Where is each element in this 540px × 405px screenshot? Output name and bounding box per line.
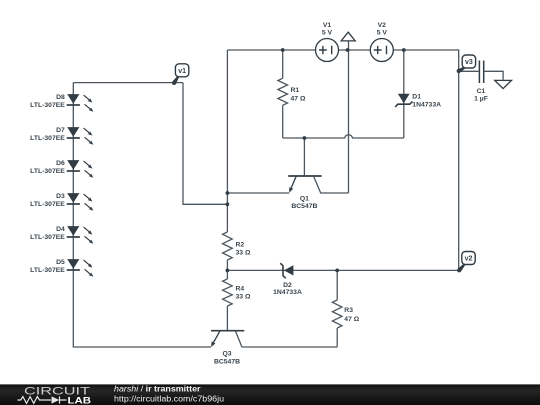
svg-text:D1: D1 bbox=[412, 93, 421, 100]
svg-text:R2: R2 bbox=[236, 241, 245, 248]
resistor R3 bbox=[332, 300, 342, 328]
svg-text:1N4733A: 1N4733A bbox=[273, 289, 302, 296]
wire bbox=[226, 260, 228, 279]
svg-text:D7: D7 bbox=[56, 127, 65, 134]
wire bbox=[227, 192, 289, 194]
svg-text:v1: v1 bbox=[178, 68, 186, 75]
svg-text:D3: D3 bbox=[56, 193, 65, 200]
svg-text:D4: D4 bbox=[56, 226, 65, 233]
wire bbox=[242, 346, 337, 348]
resistor R4 bbox=[223, 279, 233, 306]
svg-text:R4: R4 bbox=[236, 285, 245, 292]
svg-text:LTL-307EE: LTL-307EE bbox=[30, 168, 65, 175]
LED D8 bbox=[67, 94, 79, 104]
LED D3 bbox=[67, 193, 79, 203]
wire bbox=[227, 269, 458, 271]
wire bbox=[303, 138, 305, 175]
svg-text:LTL-307EE: LTL-307EE bbox=[30, 135, 65, 142]
svg-text:LTL-307EE: LTL-307EE bbox=[30, 234, 65, 241]
svg-text:BC547B: BC547B bbox=[214, 359, 240, 366]
svg-text:LAB: LAB bbox=[68, 394, 92, 405]
svg-text:D5: D5 bbox=[56, 259, 65, 266]
svg-text:D2: D2 bbox=[283, 282, 292, 289]
svg-text:33 Ω: 33 Ω bbox=[236, 250, 251, 257]
svg-text:V2: V2 bbox=[378, 22, 387, 29]
svg-text:Q3: Q3 bbox=[222, 351, 231, 358]
wire bbox=[227, 50, 458, 270]
svg-text:LTL-307EE: LTL-307EE bbox=[30, 267, 65, 274]
junction v3 node bbox=[457, 69, 461, 73]
svg-text:LTL-307EE: LTL-307EE bbox=[30, 102, 65, 109]
svg-text:D6: D6 bbox=[56, 160, 65, 167]
transistor Q1 bbox=[288, 175, 321, 177]
LED D5 bbox=[67, 259, 79, 269]
svg-text:1N4733A: 1N4733A bbox=[412, 102, 441, 109]
junction D1 top bbox=[402, 48, 406, 52]
capacitor C1 bbox=[459, 70, 479, 72]
wire bbox=[283, 135, 404, 138]
node v3 bbox=[458, 66, 466, 72]
junction Q1 base bbox=[303, 136, 307, 140]
LED D4 bbox=[67, 226, 79, 236]
wire bbox=[73, 83, 211, 347]
svg-text:33 Ω: 33 Ω bbox=[236, 293, 251, 300]
svg-text:Q1: Q1 bbox=[300, 196, 309, 203]
junction R1 top bbox=[281, 48, 285, 52]
LED D6 bbox=[67, 160, 79, 170]
wire bbox=[336, 270, 338, 300]
junction Q1 emitter bbox=[226, 191, 230, 195]
zener diode D1 bbox=[398, 94, 410, 104]
svg-text:harshi / ir transmitter: harshi / ir transmitter bbox=[114, 385, 201, 394]
voltage source V1 bbox=[316, 39, 339, 62]
junction v1 join bbox=[226, 202, 230, 206]
zener diode D2 bbox=[284, 265, 294, 275]
wire bbox=[183, 83, 227, 205]
wire bbox=[282, 50, 284, 78]
resistor R1 bbox=[278, 78, 288, 105]
svg-text:V1: V1 bbox=[323, 22, 332, 29]
voltage source V2 bbox=[370, 39, 393, 62]
node v2 bbox=[458, 263, 466, 272]
svg-text:v3: v3 bbox=[465, 59, 473, 66]
svg-text:1 µF: 1 µF bbox=[474, 96, 488, 103]
junction R2 R4 node bbox=[226, 269, 230, 273]
wire bbox=[282, 105, 284, 138]
wire bbox=[226, 306, 228, 331]
junction power node bbox=[346, 48, 350, 52]
wire bbox=[348, 41, 350, 193]
svg-text:R3: R3 bbox=[344, 307, 353, 314]
svg-text:47 Ω: 47 Ω bbox=[291, 96, 306, 103]
svg-text:5 V: 5 V bbox=[377, 29, 388, 36]
power flag bbox=[341, 32, 355, 41]
svg-text:D8: D8 bbox=[56, 94, 65, 101]
svg-text:LTL-307EE: LTL-307EE bbox=[30, 201, 65, 208]
wire bbox=[73, 82, 183, 84]
junction R3 top bbox=[335, 269, 339, 273]
svg-text:http://circuitlab.com/c7b96ju: http://circuitlab.com/c7b96ju bbox=[114, 394, 224, 403]
node v1 bbox=[172, 76, 179, 85]
svg-text:R1: R1 bbox=[291, 87, 300, 94]
svg-text:5 V: 5 V bbox=[322, 29, 333, 36]
svg-text:47 Ω: 47 Ω bbox=[344, 316, 359, 323]
wire bbox=[226, 50, 228, 232]
transistor Q3 bbox=[211, 330, 244, 332]
resistor R2 bbox=[223, 232, 233, 260]
wire bbox=[403, 50, 405, 138]
LED D7 bbox=[67, 127, 79, 137]
ground bbox=[495, 80, 512, 88]
svg-text:C1: C1 bbox=[477, 88, 486, 95]
footer bar bbox=[0, 384, 540, 405]
svg-text:BC547B: BC547B bbox=[291, 203, 317, 210]
wire bbox=[336, 328, 338, 347]
svg-text:v2: v2 bbox=[465, 256, 473, 263]
